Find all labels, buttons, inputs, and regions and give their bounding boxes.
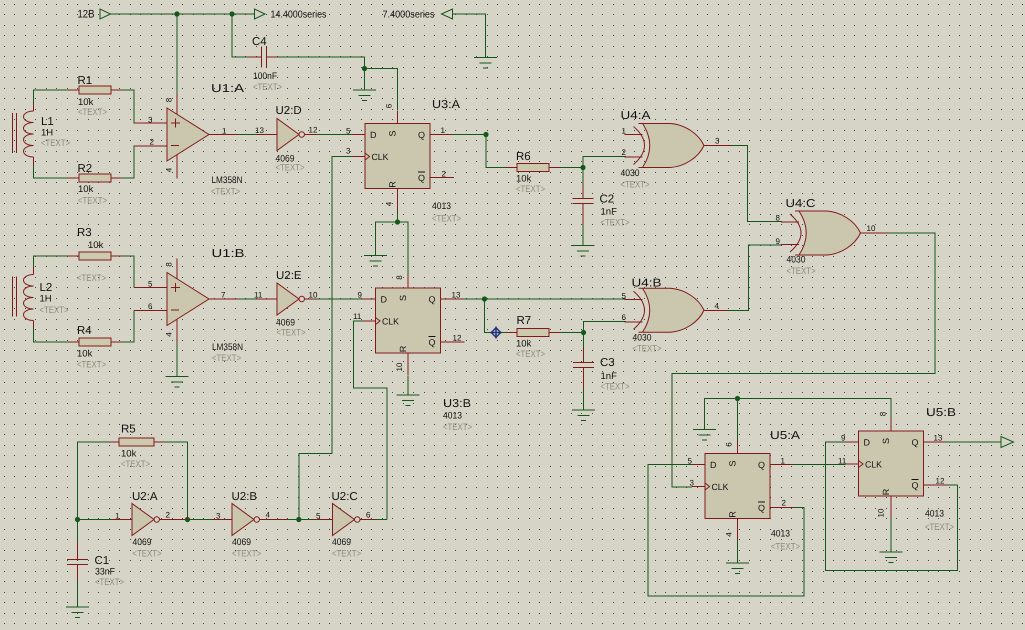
svg-text:1H: 1H <box>40 294 52 305</box>
svg-text:9: 9 <box>358 291 363 300</box>
svg-text:<TEXT>: <TEXT> <box>253 82 282 93</box>
svg-text:10k: 10k <box>516 339 532 350</box>
svg-text:8: 8 <box>165 262 174 267</box>
svg-text:S: S <box>728 460 738 466</box>
svg-text:R4: R4 <box>77 325 92 337</box>
svg-text:D: D <box>864 438 871 448</box>
svg-text:L2: L2 <box>40 282 53 294</box>
svg-text:4: 4 <box>715 302 720 311</box>
svg-text:D: D <box>710 460 717 470</box>
svg-text:U1:A: U1:A <box>211 83 244 95</box>
svg-text:3: 3 <box>715 137 720 146</box>
svg-text:7: 7 <box>221 291 226 300</box>
svg-text:4: 4 <box>385 201 394 206</box>
svg-text:U2:C: U2:C <box>332 491 358 503</box>
svg-text:2: 2 <box>782 499 787 508</box>
svg-text:4013: 4013 <box>771 529 790 540</box>
svg-text:3: 3 <box>148 116 153 125</box>
svg-text:10k: 10k <box>516 174 532 185</box>
svg-text:U2:E: U2:E <box>276 270 302 282</box>
svg-text:<TEXT>: <TEXT> <box>633 344 662 355</box>
svg-text:R5: R5 <box>121 424 136 436</box>
svg-text:S: S <box>881 438 891 444</box>
svg-text:R: R <box>388 181 398 188</box>
svg-text:4013: 4013 <box>432 201 451 212</box>
svg-text:U1:B: U1:B <box>212 248 245 260</box>
svg-text:5: 5 <box>622 292 627 301</box>
svg-text:6: 6 <box>385 103 394 108</box>
svg-text:4: 4 <box>725 532 734 537</box>
svg-text:Q: Q <box>429 338 436 348</box>
svg-text:U4:C: U4:C <box>786 198 816 210</box>
svg-text:11: 11 <box>838 457 847 466</box>
svg-text:<TEXT>: <TEXT> <box>771 542 800 553</box>
svg-text:S: S <box>398 295 408 301</box>
svg-text:R2: R2 <box>78 163 93 175</box>
svg-text:1nF: 1nF <box>601 371 618 382</box>
svg-text:3: 3 <box>346 147 351 156</box>
svg-text:13: 13 <box>934 434 943 443</box>
svg-text:4069: 4069 <box>332 537 351 548</box>
svg-text:U2:A: U2:A <box>132 491 158 503</box>
svg-text:9: 9 <box>841 434 846 443</box>
svg-text:4013: 4013 <box>925 509 944 520</box>
svg-text:L1: L1 <box>41 116 54 128</box>
svg-text:U4:B: U4:B <box>632 278 662 290</box>
svg-text:<TEXT>: <TEXT> <box>212 353 241 364</box>
svg-text:3: 3 <box>690 479 695 488</box>
svg-text:C1: C1 <box>95 555 110 567</box>
svg-text:R3: R3 <box>77 227 92 239</box>
svg-text:5: 5 <box>148 280 153 289</box>
svg-text:CLK: CLK <box>865 460 882 470</box>
svg-text:6: 6 <box>622 313 627 322</box>
svg-text:4: 4 <box>266 511 271 520</box>
svg-text:1: 1 <box>622 127 627 136</box>
svg-text:R: R <box>881 488 891 495</box>
svg-text:<TEXT>: <TEXT> <box>232 549 261 560</box>
svg-text:<TEXT>: <TEXT> <box>41 138 70 149</box>
svg-text:U5:B: U5:B <box>926 407 956 419</box>
svg-text:Q: Q <box>912 481 919 491</box>
svg-text:<TEXT>: <TEXT> <box>211 187 240 198</box>
svg-text:D: D <box>381 295 388 305</box>
svg-text:12: 12 <box>309 126 318 135</box>
svg-text:4069: 4069 <box>133 537 152 548</box>
svg-text:2: 2 <box>442 170 447 179</box>
svg-text:13: 13 <box>255 126 264 135</box>
svg-text:100nF: 100nF <box>253 71 277 82</box>
svg-text:9: 9 <box>776 237 781 246</box>
svg-text:U3:A: U3:A <box>432 99 460 111</box>
svg-text:11: 11 <box>353 312 362 321</box>
svg-text:10k: 10k <box>88 240 104 251</box>
svg-text:<TEXT>: <TEXT> <box>277 328 306 339</box>
svg-text:<TEXT>: <TEXT> <box>77 360 106 371</box>
svg-text:1: 1 <box>781 457 786 466</box>
svg-text:<TEXT>: <TEXT> <box>77 273 106 284</box>
svg-text:<TEXT>: <TEXT> <box>787 266 816 277</box>
svg-text:12: 12 <box>453 334 462 343</box>
svg-text:10: 10 <box>867 224 876 233</box>
svg-text:CLK: CLK <box>712 482 729 492</box>
svg-text:LM358N: LM358N <box>212 175 243 186</box>
svg-text:Q: Q <box>912 438 919 448</box>
svg-text:6: 6 <box>366 511 371 520</box>
svg-text:R6: R6 <box>516 151 531 163</box>
svg-text:<TEXT>: <TEXT> <box>601 382 630 393</box>
svg-text:5: 5 <box>316 512 321 521</box>
svg-text:7.4000series: 7.4000series <box>383 10 435 21</box>
svg-text:R7: R7 <box>517 315 532 327</box>
svg-text:4: 4 <box>165 167 174 172</box>
svg-text:4030: 4030 <box>621 168 640 179</box>
svg-text:10k: 10k <box>77 349 93 360</box>
svg-text:U2:D: U2:D <box>276 105 302 117</box>
svg-text:1: 1 <box>115 512 120 521</box>
svg-text:R: R <box>728 511 738 518</box>
svg-text:U5:A: U5:A <box>770 430 800 442</box>
svg-text:10: 10 <box>877 508 886 517</box>
svg-text:4013: 4013 <box>443 411 462 422</box>
svg-text:U4:A: U4:A <box>621 110 651 122</box>
svg-text:4: 4 <box>165 332 174 337</box>
svg-text:12B: 12B <box>78 9 95 21</box>
svg-text:Q: Q <box>418 173 425 183</box>
svg-text:4030: 4030 <box>787 255 806 266</box>
svg-text:2: 2 <box>166 511 171 520</box>
svg-text:<TEXT>: <TEXT> <box>443 422 472 433</box>
svg-text:R1: R1 <box>78 75 93 87</box>
svg-text:8: 8 <box>395 275 404 280</box>
svg-text:6: 6 <box>725 442 734 447</box>
svg-text:<TEXT>: <TEXT> <box>78 196 107 207</box>
svg-text:8: 8 <box>165 97 174 102</box>
svg-text:<TEXT>: <TEXT> <box>332 549 361 560</box>
svg-text:R: R <box>398 345 408 352</box>
svg-text:13: 13 <box>452 291 461 300</box>
svg-text:<TEXT>: <TEXT> <box>432 214 461 225</box>
svg-text:LM358N: LM358N <box>212 342 243 353</box>
svg-text:S: S <box>388 130 398 136</box>
svg-text:<TEXT>: <TEXT> <box>516 349 545 360</box>
svg-text:12: 12 <box>936 477 945 486</box>
svg-text:2: 2 <box>622 148 627 157</box>
svg-text:<TEXT>: <TEXT> <box>276 163 305 174</box>
svg-text:Q: Q <box>758 503 765 513</box>
svg-text:C4: C4 <box>252 36 267 48</box>
svg-text:10k: 10k <box>121 449 137 460</box>
svg-text:Q: Q <box>418 130 425 140</box>
svg-text:CLK: CLK <box>372 152 389 162</box>
svg-text:4069: 4069 <box>232 537 251 548</box>
svg-text:<TEXT>: <TEXT> <box>925 522 954 533</box>
svg-text:<TEXT>: <TEXT> <box>621 180 650 191</box>
svg-text:4030: 4030 <box>633 333 652 344</box>
svg-text:U3:B: U3:B <box>443 398 471 410</box>
svg-text:<TEXT>: <TEXT> <box>516 184 545 195</box>
svg-text:<TEXT>: <TEXT> <box>95 577 124 588</box>
svg-text:6: 6 <box>148 302 153 311</box>
svg-text:1: 1 <box>441 126 446 135</box>
svg-text:10k: 10k <box>78 184 94 195</box>
svg-text:U2:B: U2:B <box>232 491 258 503</box>
svg-text:<TEXT>: <TEXT> <box>121 459 150 470</box>
svg-text:5: 5 <box>346 127 351 136</box>
svg-text:1H: 1H <box>41 128 53 139</box>
svg-text:<TEXT>: <TEXT> <box>601 218 630 229</box>
svg-text:CLK: CLK <box>382 317 399 327</box>
svg-text:3: 3 <box>216 512 221 521</box>
svg-text:C2: C2 <box>600 194 615 206</box>
svg-text:1nF: 1nF <box>601 207 618 218</box>
svg-text:1: 1 <box>222 127 227 136</box>
svg-text:C3: C3 <box>600 357 615 369</box>
svg-text:10: 10 <box>309 291 318 300</box>
svg-text:11: 11 <box>254 291 263 300</box>
svg-text:Q: Q <box>429 295 436 305</box>
svg-text:14.4000series: 14.4000series <box>271 10 327 21</box>
svg-text:<TEXT>: <TEXT> <box>40 305 69 316</box>
svg-text:<TEXT>: <TEXT> <box>133 549 162 560</box>
svg-text:<TEXT>: <TEXT> <box>78 107 107 118</box>
svg-text:Q: Q <box>758 460 765 470</box>
svg-text:8: 8 <box>879 411 888 416</box>
svg-text:D: D <box>370 130 377 140</box>
svg-text:10: 10 <box>395 362 404 371</box>
svg-text:8: 8 <box>776 214 781 223</box>
svg-text:33nF: 33nF <box>95 567 115 578</box>
svg-text:2: 2 <box>150 138 155 147</box>
